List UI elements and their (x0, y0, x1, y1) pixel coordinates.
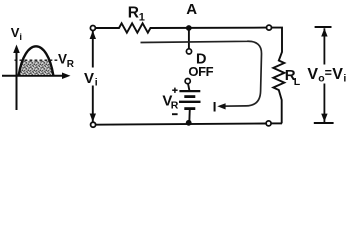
svg-text:A: A (186, 1, 197, 18)
svg-text:V: V (332, 66, 343, 83)
svg-text:R: R (128, 4, 139, 21)
svg-text:L: L (294, 76, 301, 88)
svg-text:i: i (19, 32, 22, 43)
svg-text:V: V (84, 70, 94, 87)
svg-text:i: i (95, 77, 98, 89)
svg-text:R: R (171, 100, 179, 112)
svg-text:V: V (58, 51, 67, 66)
svg-text:=: = (325, 66, 332, 80)
svg-text:R: R (67, 59, 75, 70)
svg-text:i: i (343, 72, 346, 84)
svg-text:I: I (213, 98, 217, 114)
svg-text:1: 1 (139, 11, 145, 23)
svg-text:OFF: OFF (188, 64, 213, 79)
svg-text:V: V (307, 66, 318, 83)
